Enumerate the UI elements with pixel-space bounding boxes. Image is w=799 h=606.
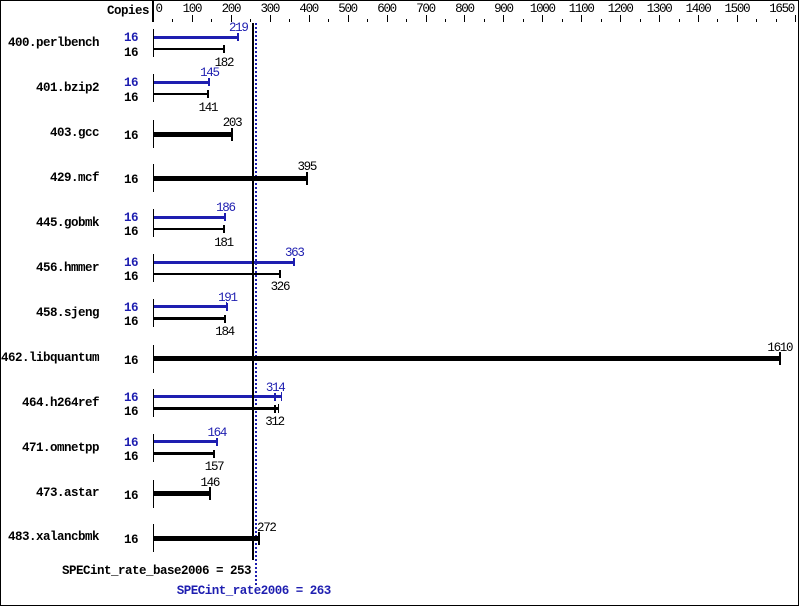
copies 16 (peak) 458.sjeng xyxy=(104,302,138,315)
bar 483.xalancbmk base = 272 (single) xyxy=(154,536,259,541)
axis label 1300 xyxy=(629,3,689,15)
copies 16 (peak) 400.perlbench xyxy=(104,32,138,45)
value label 191 xyxy=(197,292,257,304)
axis label 900 xyxy=(473,3,533,15)
bar 445.gobmk base = 181 xyxy=(154,228,224,231)
axis label 700 xyxy=(396,3,456,15)
bar 456.hmmer peak = 363 xyxy=(154,261,295,264)
bar 401.bzip2 peak = 145 xyxy=(154,81,210,84)
benchmark group 403.gcc xyxy=(0,127,99,140)
bar 471.omnetpp peak = 164 xyxy=(154,440,217,443)
baseline tick 462.libquantum xyxy=(153,345,154,373)
bar 429.mcf base = 395 (single) xyxy=(154,176,307,181)
value label 141 xyxy=(178,102,238,114)
value label 186 xyxy=(195,202,255,214)
copies 16 403.gcc xyxy=(104,130,138,143)
solid black base metric line (253) xyxy=(252,23,254,560)
axis major ticks xyxy=(192,15,193,22)
axis label 1200 xyxy=(590,3,650,15)
baseline tick 483.xalancbmk xyxy=(153,524,154,552)
baseline tick 445.gobmk xyxy=(153,209,154,237)
baseline tick 464.h264ref xyxy=(153,389,154,417)
copies 16 (base) 456.hmmer xyxy=(104,271,138,284)
value label 157 xyxy=(184,461,244,473)
axis label 200 xyxy=(201,3,261,15)
bar 464.h264ref base = 312 xyxy=(154,407,275,410)
baseline tick 401.bzip2 xyxy=(153,74,154,102)
axis label 0 xyxy=(156,3,162,15)
benchmark group 471.omnetpp xyxy=(0,442,99,455)
copies 16 462.libquantum xyxy=(104,355,138,368)
bar 403.gcc base = 203 (single) xyxy=(154,132,233,137)
footer peak metric text xyxy=(104,585,404,598)
baseline tick 400.perlbench xyxy=(153,29,154,57)
baseline tick 456.hmmer xyxy=(153,254,154,282)
axis label 500 xyxy=(318,3,378,15)
baseline tick 473.astar xyxy=(153,480,154,508)
bar 458.sjeng peak = 191 xyxy=(154,305,228,308)
iteration tick 458.sjeng peak xyxy=(226,302,227,311)
value label 1610 xyxy=(750,342,799,354)
iteration tick 464.h264ref peak (run 2) xyxy=(276,395,281,398)
bar 458.sjeng base = 184 xyxy=(154,317,225,320)
benchmark group 456.hmmer xyxy=(0,262,99,275)
benchmark group 464.h264ref xyxy=(0,397,99,410)
benchmark group 401.bzip2 xyxy=(0,82,99,95)
copies 16 (base) 401.bzip2 xyxy=(104,92,138,105)
axis label 300 xyxy=(240,3,300,15)
bar 400.perlbench peak = 219 xyxy=(154,36,239,39)
baseline tick 471.omnetpp xyxy=(153,434,154,462)
bar 473.astar base = 146 (single) xyxy=(154,491,210,496)
copies 16 (base) 471.omnetpp xyxy=(104,451,138,464)
axis minor ticks xyxy=(172,19,173,22)
value label 363 xyxy=(264,247,324,259)
value label 146 xyxy=(180,477,240,489)
axis label 100 xyxy=(162,3,222,15)
value label 145 xyxy=(179,67,239,79)
axis label 1650 xyxy=(734,3,794,15)
copies 16 (base) 445.gobmk xyxy=(104,226,138,239)
value label 181 xyxy=(194,237,254,249)
value label 312 xyxy=(245,416,305,428)
value label 314 xyxy=(245,382,305,394)
axis label 1000 xyxy=(512,3,572,15)
value label 219 xyxy=(208,22,268,34)
footer base metric text xyxy=(0,565,251,578)
copies 16 (base) 400.perlbench xyxy=(104,47,138,60)
bar 400.perlbench base = 182 xyxy=(154,48,224,51)
value label 184 xyxy=(195,326,255,338)
benchmark group 483.xalancbmk xyxy=(0,531,99,544)
value label 272 xyxy=(257,522,276,534)
bar 401.bzip2 base = 141 xyxy=(154,93,208,96)
benchmark group 429.mcf xyxy=(0,172,99,185)
baseline tick 403.gcc xyxy=(153,120,154,148)
value label 203 xyxy=(202,117,262,129)
copies 16 (base) 464.h264ref xyxy=(104,406,138,419)
axis label 400 xyxy=(279,3,339,15)
copies 16 483.xalancbmk xyxy=(104,534,138,547)
axis label 1500 xyxy=(707,3,767,15)
copies 16 (base) 458.sjeng xyxy=(104,316,138,329)
copies 16 (peak) 464.h264ref xyxy=(104,392,138,405)
axis label 600 xyxy=(357,3,417,15)
bar 445.gobmk peak = 186 xyxy=(154,216,226,219)
axis label 800 xyxy=(434,3,494,15)
axis: vertical zero line xyxy=(152,1,154,22)
benchmark group 445.gobmk xyxy=(0,217,99,230)
copies 16 (peak) 456.hmmer xyxy=(104,257,138,270)
value label 395 xyxy=(277,161,337,173)
value label 164 xyxy=(187,427,247,439)
axis label 1100 xyxy=(551,3,611,15)
benchmark group 462.libquantum xyxy=(0,352,99,365)
bar 471.omnetpp base = 157 xyxy=(154,452,215,455)
benchmark group 400.perlbench xyxy=(0,37,99,50)
baseline tick 429.mcf xyxy=(153,164,154,192)
axis: Copies header xyxy=(29,5,149,18)
copies 16 (peak) 445.gobmk xyxy=(104,212,138,225)
copies 16 (peak) 401.bzip2 xyxy=(104,77,138,90)
copies 16 429.mcf xyxy=(104,174,138,187)
bar 462.libquantum base = 1610 (single) xyxy=(154,356,780,361)
baseline tick 458.sjeng xyxy=(153,299,154,327)
value label 326 xyxy=(250,281,310,293)
bar 464.h264ref peak = 314 xyxy=(154,395,276,398)
copies 16 473.astar xyxy=(104,490,138,503)
value label 182 xyxy=(194,57,254,69)
axis label 1400 xyxy=(668,3,728,15)
dotted blue peak metric line (263) xyxy=(255,23,257,585)
iteration tick 464.h264ref base (run 2) xyxy=(276,407,279,410)
benchmark group 473.astar xyxy=(0,487,99,500)
benchmark group 458.sjeng xyxy=(0,307,99,320)
bar 456.hmmer base = 326 xyxy=(154,273,280,276)
copies 16 (peak) 471.omnetpp xyxy=(104,437,138,450)
